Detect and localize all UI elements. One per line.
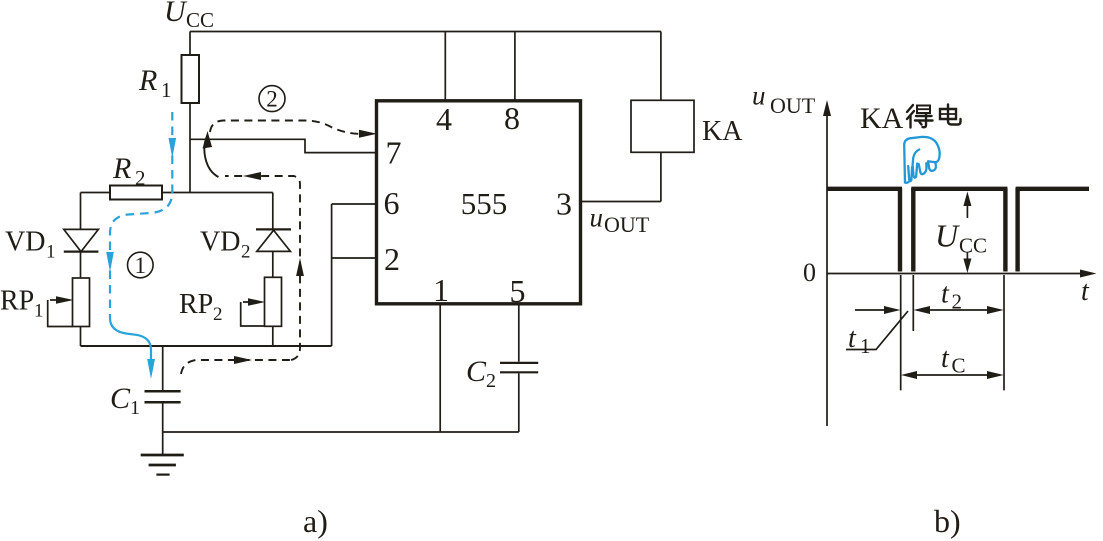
svg-text:6: 6 (384, 185, 400, 221)
svg-text:t: t (941, 279, 950, 310)
svg-text:CC: CC (186, 8, 214, 32)
svg-text:8: 8 (504, 100, 520, 136)
svg-text:b): b) (934, 503, 961, 539)
svg-text:555: 555 (461, 186, 508, 221)
svg-text:KA: KA (702, 116, 743, 147)
svg-text:u: u (752, 81, 766, 111)
svg-text:t: t (1081, 276, 1090, 307)
svg-text:VD: VD (5, 227, 45, 258)
svg-text:u: u (590, 203, 604, 233)
svg-text:C: C (110, 382, 131, 415)
svg-text:5: 5 (510, 273, 526, 309)
svg-text:2: 2 (213, 304, 223, 325)
svg-text:2: 2 (384, 241, 400, 277)
svg-text:4: 4 (436, 101, 452, 137)
svg-text:1: 1 (860, 334, 871, 358)
svg-text:t: t (848, 323, 857, 354)
svg-text:R: R (112, 152, 131, 185)
svg-text:2: 2 (241, 242, 251, 263)
svg-text:0: 0 (803, 258, 816, 287)
svg-text:VD: VD (200, 227, 240, 258)
svg-text:RP: RP (179, 289, 213, 320)
svg-text:RP: RP (0, 286, 34, 317)
svg-text:t: t (941, 343, 950, 374)
svg-text:1: 1 (161, 78, 172, 102)
svg-text:1: 1 (46, 242, 56, 263)
svg-text:1: 1 (34, 301, 44, 322)
svg-text:U: U (164, 0, 188, 28)
svg-text:1: 1 (433, 272, 449, 308)
svg-text:CC: CC (959, 234, 987, 258)
svg-text:KA: KA (860, 102, 904, 135)
svg-text:C: C (952, 354, 966, 378)
svg-text:C: C (466, 355, 487, 388)
svg-text:OUT: OUT (770, 93, 816, 118)
svg-text:OUT: OUT (604, 212, 650, 237)
svg-text:1: 1 (135, 253, 147, 278)
svg-text:2: 2 (135, 166, 146, 190)
svg-text:a): a) (303, 503, 328, 539)
svg-text:R: R (138, 64, 157, 97)
svg-text:U: U (935, 218, 960, 254)
svg-text:7: 7 (386, 135, 402, 171)
svg-text:2: 2 (266, 87, 278, 112)
svg-text:2: 2 (486, 370, 496, 392)
svg-text:1: 1 (130, 397, 140, 419)
svg-text:3: 3 (556, 186, 572, 222)
svg-text:2: 2 (952, 290, 963, 314)
